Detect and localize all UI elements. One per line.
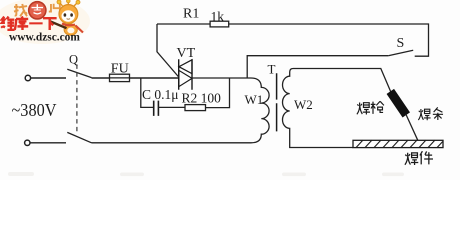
- wire: C to R2: [158, 106, 185, 108]
- label 焊枪 (welding gun): [357, 101, 384, 114]
- svg-text:Q: Q: [69, 53, 78, 67]
- watermark mascot tool: [51, 22, 67, 29]
- wire: bottom rail left of Q pole 2: [30, 142, 66, 144]
- watermark halo: [0, 0, 90, 44]
- wire: R1 to right drop: [229, 24, 429, 56]
- watermark top text 找-片 orange: [14, 4, 60, 17]
- svg-text:W1: W1: [245, 92, 264, 107]
- svg-text:1k: 1k: [211, 9, 225, 24]
- svg-text:www.dzsc.com: www.dzsc.com: [9, 32, 80, 44]
- terminal L1: [25, 75, 30, 80]
- wire: R2 up to rail on triac right side: [206, 78, 230, 108]
- capacitor C plates: [154, 101, 159, 116]
- welding gun holder (black electrode holder): [387, 90, 409, 117]
- svg-text:C 0.1μ: C 0.1μ: [142, 87, 179, 102]
- wire: main top rail from terminal to Q: [31, 77, 66, 79]
- resistor R2: [185, 105, 206, 111]
- terminal L2: [25, 140, 30, 145]
- resistor R1: [210, 21, 229, 27]
- switch Q pole 2 blade: [67, 132, 91, 142]
- wire: S back to W1 top node: [247, 56, 388, 78]
- wire: top trigger wire to R1: [157, 23, 210, 25]
- switch S blade: [388, 50, 413, 56]
- wire: FU to triac VT: [130, 77, 179, 79]
- switch Q pole 1 blade: [67, 69, 91, 77]
- watermark mascot body: [64, 24, 77, 35]
- watermark mascot head: [59, 1, 77, 6]
- triac VT lower triangle: [179, 70, 192, 86]
- electrode lead to workpiece: [406, 115, 418, 141]
- svg-text:T: T: [268, 62, 276, 77]
- wire: Q to FU: [92, 77, 110, 79]
- wire: W2 top lead diagonal to holder: [364, 69, 391, 92]
- svg-text:W2: W2: [294, 97, 313, 112]
- fuse FU: [110, 74, 130, 81]
- watermark red badge: [29, 2, 46, 19]
- wire: gate of VT up to R1: [157, 24, 179, 77]
- workpiece hatched bar: [353, 140, 443, 147]
- wire: triac to W1, winding W1 of transformer T: [92, 78, 270, 143]
- svg-text:VT: VT: [177, 46, 196, 61]
- watermark red text 维库一下: [1, 17, 56, 31]
- label 焊件 (workpiece): [405, 151, 433, 165]
- faint scan smudges: [8, 172, 404, 176]
- switch Q dashed link: [76, 65, 78, 132]
- triac VT bars: [179, 59, 192, 89]
- svg-text:~380V: ~380V: [12, 100, 57, 120]
- svg-text:S: S: [397, 36, 405, 51]
- triac VT upper triangle: [179, 60, 192, 74]
- node: snubber left junction, branch down: [141, 78, 154, 107]
- transformer T core: [276, 73, 278, 131]
- winding W2 of transformer T with top lead: [283, 69, 364, 148]
- svg-text:R1: R1: [183, 7, 199, 22]
- watermark dzsc logo: [0, 0, 90, 44]
- svg-text:R2 100: R2 100: [182, 91, 222, 106]
- label 焊条 (electrode): [418, 107, 443, 120]
- svg-text:FU: FU: [111, 62, 129, 77]
